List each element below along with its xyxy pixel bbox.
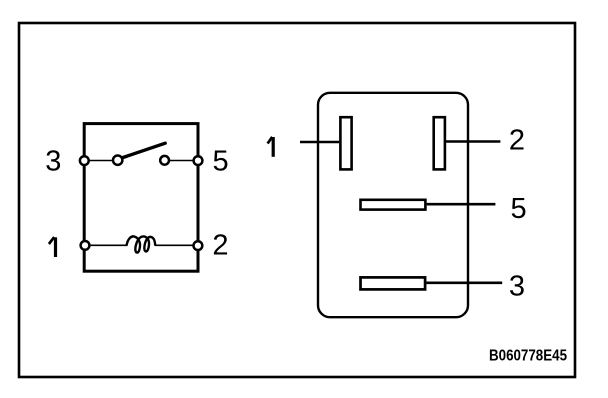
terminal 5 xyxy=(194,156,203,165)
switch SW contact arm xyxy=(123,143,166,157)
terminal 1 xyxy=(81,241,90,250)
terminal 2 xyxy=(194,241,203,250)
pin cavity 3 xyxy=(361,277,426,289)
node switch throw xyxy=(160,156,169,165)
leader line pin 1 xyxy=(300,141,339,144)
svg-text:3: 3 xyxy=(509,271,525,303)
leader line pin 3 xyxy=(426,281,502,284)
relay K1 internal-circuit box xyxy=(84,124,198,272)
svg-text:2: 2 xyxy=(212,230,228,262)
pin label 1 (schematic) xyxy=(49,237,56,257)
leader line pin 2 xyxy=(446,140,500,143)
pin label 1 (connector) xyxy=(268,137,274,157)
wire switch-to-terminal5 xyxy=(165,160,198,162)
connector J1 outline xyxy=(318,93,468,317)
wire terminal3-to-switch xyxy=(84,160,117,162)
leader line pin 5 xyxy=(427,203,496,206)
svg-text:3: 3 xyxy=(45,146,61,178)
pin cavity 2 xyxy=(434,117,445,169)
svg-text:2: 2 xyxy=(509,125,525,157)
svg-text:B060778E45: B060778E45 xyxy=(489,348,567,365)
node switch pivot xyxy=(113,156,122,165)
wire coil-to-terminal2 xyxy=(155,244,198,246)
svg-text:5: 5 xyxy=(511,193,527,225)
coil L (relay winding) xyxy=(127,236,156,252)
pin cavity 1 xyxy=(340,117,351,169)
svg-text:5: 5 xyxy=(213,145,229,177)
pin cavity 5 xyxy=(361,200,426,210)
terminal 3 xyxy=(80,156,89,165)
wire terminal1-to-coil xyxy=(85,244,128,246)
